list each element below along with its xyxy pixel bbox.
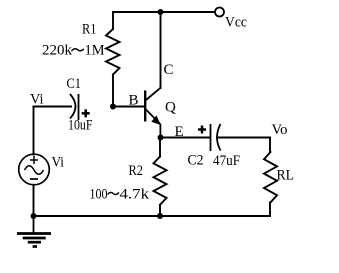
- wire R1 top stub: [112, 12, 114, 29]
- svg-text:1M: 1M: [85, 43, 105, 59]
- terminal Vcc: [215, 8, 224, 17]
- emitter arrow: [151, 115, 161, 125]
- transistor Q: [145, 88, 161, 138]
- svg-text:4.7k: 4.7k: [120, 187, 150, 203]
- wire top rail: [113, 11, 215, 13]
- svg-text:C2: C2: [188, 153, 204, 169]
- wire R2 top stub: [159, 138, 161, 157]
- node R2 bottom junction: [157, 213, 163, 219]
- wire RL top stub: [269, 138, 271, 153]
- svg-text:Q: Q: [165, 100, 176, 116]
- wire bottom rail: [34, 215, 271, 217]
- svg-text:47uF: 47uF: [213, 153, 240, 169]
- svg-text:Vcc: Vcc: [225, 15, 247, 31]
- svg-text:Vi: Vi: [52, 155, 65, 171]
- svg-text:C: C: [164, 62, 174, 78]
- ground: [17, 216, 51, 247]
- capacitor C1: [70, 94, 79, 120]
- svg-text:RL: RL: [277, 168, 295, 184]
- base bar: [144, 91, 146, 122]
- wire emitter out: [161, 137, 210, 139]
- source minus: [30, 178, 38, 180]
- wire R2 bottom stub: [159, 205, 161, 216]
- node junction top: [158, 9, 164, 15]
- svg-text:220k: 220k: [42, 43, 73, 59]
- wire base segment: [113, 106, 144, 108]
- svg-text:E: E: [175, 124, 184, 140]
- node ground junction: [31, 213, 37, 219]
- node E junction: [158, 135, 164, 141]
- label plus C2: [198, 126, 206, 134]
- wire RL bottom stub: [269, 202, 271, 216]
- wire input drop: [33, 107, 35, 155]
- svg-text:100: 100: [90, 187, 108, 203]
- resistor R2: [154, 157, 167, 205]
- svg-text:Vo: Vo: [272, 122, 288, 138]
- svg-text:Vi: Vi: [30, 92, 44, 108]
- source Vi: [19, 154, 50, 185]
- resistor RL: [264, 152, 277, 202]
- svg-text:R2: R2: [129, 163, 144, 179]
- emitter diagonal: [146, 110, 160, 125]
- wire source bottom: [33, 185, 35, 216]
- wire R1 bottom stub: [112, 75, 114, 107]
- svg-text:C1: C1: [67, 76, 82, 92]
- wire input horizontal: [34, 106, 72, 108]
- label tilde2: [108, 192, 120, 194]
- collector diagonal: [146, 88, 161, 100]
- svg-text:R1: R1: [82, 22, 97, 38]
- svg-text:10uF: 10uF: [68, 118, 93, 134]
- label tilde1: [72, 49, 84, 51]
- wire collector vertical: [160, 12, 162, 88]
- source plus: [30, 156, 38, 164]
- capacitor C2: [211, 124, 221, 151]
- node junction base: [110, 104, 116, 110]
- svg-text:B: B: [129, 93, 139, 109]
- wire C2 to Vo corner: [217, 137, 270, 139]
- source sine: [25, 166, 44, 175]
- label plus C1: [82, 109, 90, 117]
- emitter vertical: [159, 124, 161, 138]
- resistor R1: [106, 29, 120, 75]
